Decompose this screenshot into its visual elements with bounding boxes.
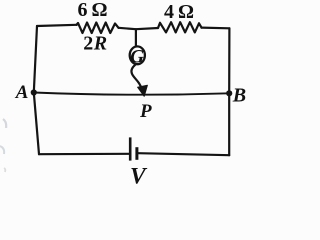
wire between R1 and R2: [119, 28, 159, 29]
node B dot: [226, 90, 232, 96]
wire battery to bottom right corner: [138, 153, 229, 155]
scan smudge 3: [4, 168, 5, 172]
wire R2 to top-right corner: [202, 27, 230, 30]
wire top-left horizontal: [37, 25, 77, 26]
wire middle A to B: [34, 93, 229, 95]
wire right vertical: [228, 28, 230, 155]
svg-text:V: V: [130, 163, 148, 189]
svg-text:B: B: [232, 84, 246, 106]
wire left vertical: [34, 26, 39, 154]
galvanometer U1 circle: [130, 46, 145, 64]
resistor R1 zigzag (6Ω / 2R): [77, 23, 119, 34]
battery V long plate: [129, 137, 132, 160]
svg-text:P: P: [139, 101, 152, 122]
battery V short plate: [135, 147, 138, 160]
arrowhead at P (slider contact): [138, 85, 148, 96]
galvanometer stem wire: [135, 29, 137, 46]
svg-text:4 Ω: 4 Ω: [164, 1, 194, 23]
resistor R2 zigzag (4Ω): [158, 22, 202, 32]
svg-text:A: A: [15, 82, 29, 103]
wire bottom left to battery: [39, 153, 129, 156]
scan smudge 2: [0, 146, 4, 154]
scan smudge 1: [3, 119, 6, 128]
svg-text:2R: 2R: [83, 33, 108, 55]
svg-text:G: G: [130, 46, 144, 67]
node A dot: [31, 89, 37, 95]
svg-text:6 Ω: 6 Ω: [78, 0, 108, 21]
galvanometer lead wire to P: [131, 65, 141, 87]
